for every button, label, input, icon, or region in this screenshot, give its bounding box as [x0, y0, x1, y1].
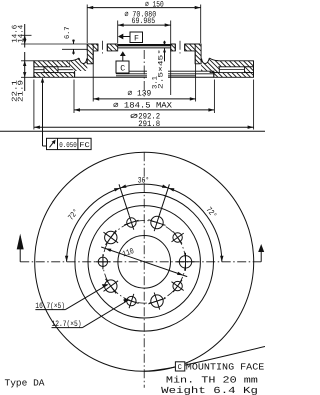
svg-text:C: C	[120, 65, 125, 74]
svg-text:⌀ 139: ⌀ 139	[128, 89, 152, 98]
svg-text:0.050: 0.050	[59, 142, 77, 150]
svg-text:69.985: 69.985	[132, 17, 156, 26]
svg-text:2.5×45°: 2.5×45°	[157, 49, 165, 89]
svg-text:Type DA: Type DA	[5, 378, 45, 389]
svg-text:C: C	[178, 364, 183, 372]
svg-text:FC: FC	[79, 142, 90, 150]
svg-text:⌀ 184.5 MAX: ⌀ 184.5 MAX	[113, 101, 172, 110]
svg-text:21.9: 21.9	[18, 80, 26, 102]
svg-text:⌀: ⌀	[130, 113, 138, 122]
svg-text:14.4: 14.4	[18, 25, 26, 43]
svg-text:6.7: 6.7	[64, 27, 72, 40]
svg-text:36°: 36°	[138, 176, 150, 185]
svg-text:Weight 6.4 Kg: Weight 6.4 Kg	[161, 385, 258, 395]
svg-text:Min. TH 20 mm: Min. TH 20 mm	[166, 374, 259, 385]
svg-text:MOUNTING FACE: MOUNTING FACE	[186, 362, 265, 373]
svg-text:F: F	[134, 35, 139, 44]
svg-text:⌀ 150: ⌀ 150	[145, 0, 164, 9]
svg-text:291.8: 291.8	[138, 120, 160, 129]
